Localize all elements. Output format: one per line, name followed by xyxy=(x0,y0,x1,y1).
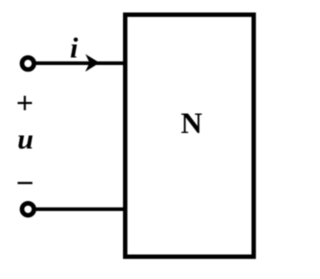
label u xyxy=(17,124,33,156)
polarity minus xyxy=(18,182,33,184)
label N xyxy=(181,107,203,140)
svg-text:i: i xyxy=(70,33,78,65)
wire bottom terminal to box xyxy=(32,207,127,211)
svg-text:u: u xyxy=(17,124,33,156)
top terminal xyxy=(22,58,34,70)
current arrow xyxy=(85,54,99,72)
label i xyxy=(70,33,78,65)
svg-text:N: N xyxy=(181,107,203,140)
wire top terminal to box xyxy=(32,61,127,65)
bottom terminal xyxy=(22,203,34,215)
network box N (two-terminal network) xyxy=(125,15,254,257)
polarity plus xyxy=(18,96,32,110)
